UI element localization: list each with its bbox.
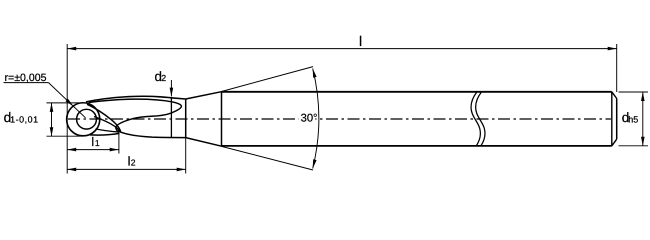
dimension dh5: top arrow xyxy=(641,92,645,101)
dimension d1: bottom arrow xyxy=(50,127,54,136)
dimension l: left arrow xyxy=(67,47,76,51)
dimension l1: line xyxy=(67,149,119,151)
flute end vertical xyxy=(170,98,172,137)
dimension d1: top extension xyxy=(47,102,84,104)
break S-curve right xyxy=(476,92,485,146)
chamfer bottom diagonal xyxy=(612,139,617,146)
angle arc 30deg xyxy=(313,69,319,169)
30deg construction line lower xyxy=(222,146,314,170)
break S-curve left xyxy=(471,92,480,146)
svg-text:l: l xyxy=(91,135,94,149)
ball inner circle xyxy=(77,109,97,129)
flute wedge edge xyxy=(96,129,120,132)
dimension l1: extension xyxy=(118,132,120,153)
extension line right for l xyxy=(616,44,618,92)
dimension l1: right arrow xyxy=(110,148,119,152)
leader r: diagonal xyxy=(49,83,86,118)
dimension d2: arrow line xyxy=(170,80,172,96)
dimension dh5: bottom extension xyxy=(619,145,649,147)
shank end face xyxy=(616,99,618,140)
ball outer circle xyxy=(67,103,100,136)
svg-text:2: 2 xyxy=(131,158,136,168)
dimension d1: bottom extension xyxy=(47,135,84,137)
flute leaf upper edge with apex hook xyxy=(89,99,182,132)
dimension l2: extension xyxy=(185,138,187,174)
30deg construction line upper xyxy=(222,67,314,92)
dimension dh5: bottom arrow xyxy=(641,137,645,146)
leader r: arrowhead xyxy=(65,99,73,107)
dimension l2: left arrow xyxy=(67,168,76,172)
neck end vertical xyxy=(185,99,187,138)
svg-text:r=±0,005: r=±0,005 xyxy=(5,72,47,84)
bottom outline of ball region xyxy=(94,117,120,133)
svg-text:2: 2 xyxy=(161,73,166,83)
taper/shank junction vertical xyxy=(221,92,223,147)
dimension l1: left arrow xyxy=(67,148,76,152)
dimension l2: right arrow xyxy=(177,168,186,172)
chamfer top diagonal xyxy=(612,92,617,99)
ball bottom outline piece xyxy=(90,133,120,135)
svg-text:l: l xyxy=(359,33,362,49)
svg-text:30°: 30° xyxy=(301,112,318,124)
dimension d1: top arrow xyxy=(50,103,54,112)
leader r: underline xyxy=(4,82,49,84)
taper top edge xyxy=(186,92,222,99)
top outline xyxy=(86,96,186,102)
angle label 30deg background xyxy=(299,110,316,124)
svg-text:1: 1 xyxy=(95,138,100,148)
shank bottom line xyxy=(222,145,612,147)
angle arc bottom arrowhead xyxy=(313,159,317,168)
shank end chamfer vertical xyxy=(611,92,613,146)
svg-text:1-0,01: 1-0,01 xyxy=(10,114,38,124)
svg-text:h5: h5 xyxy=(628,115,638,125)
dimension l: right arrow xyxy=(608,47,617,51)
extension line left shared xyxy=(66,44,68,174)
dimension d1: vertical line xyxy=(51,103,53,136)
dimension dh5: line xyxy=(642,92,644,146)
shank top line xyxy=(222,91,612,93)
dimension d2: arrow xyxy=(170,88,174,97)
taper bottom edge xyxy=(186,138,222,147)
centerline xyxy=(68,118,611,120)
dimension l: line xyxy=(67,48,617,50)
flute 2 edge sweep xyxy=(87,104,186,137)
dimension dh5: top extension xyxy=(619,91,649,93)
angle arc top arrowhead xyxy=(313,69,317,78)
dimension l2: line xyxy=(67,168,186,170)
